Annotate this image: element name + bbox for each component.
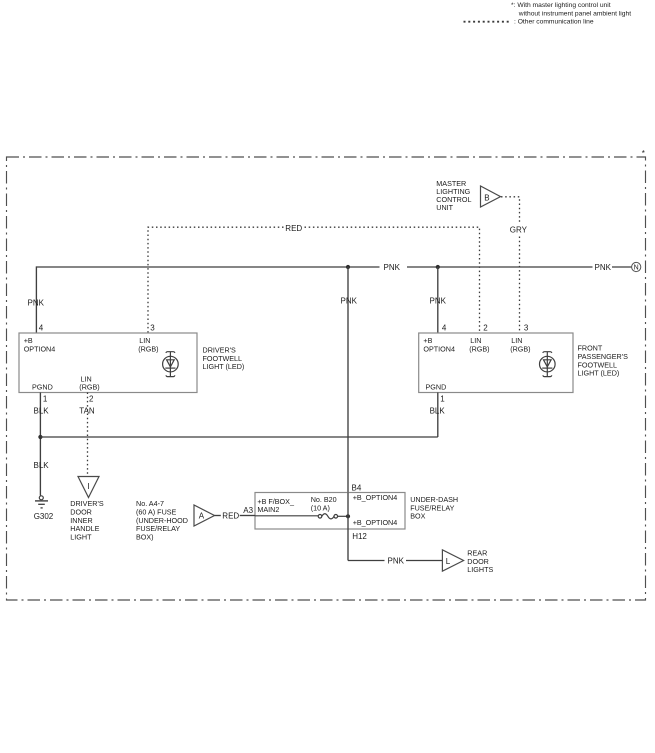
svg-text:BLK: BLK [430,406,446,415]
fuse element [255,514,348,519]
driver's footwell light box [19,333,197,393]
svg-text:PGND: PGND [32,382,53,391]
wire PNK to under-dash box [347,267,349,493]
wire PNK to passenger pin 4 [437,267,439,333]
svg-text:LIGHTS: LIGHTS [467,565,493,574]
svg-text:(RGB): (RGB) [469,344,489,353]
svg-text:A: A [199,512,205,521]
svg-text:PNK: PNK [595,263,612,272]
svg-text:N: N [634,265,639,272]
svg-text:(RGB): (RGB) [79,383,99,392]
dash-dot enclosure frame [7,157,646,600]
svg-text:BOX: BOX [410,512,425,521]
svg-text:3: 3 [524,324,529,333]
wire RED dotted right segment [305,227,480,333]
svg-text:RED: RED [285,224,302,233]
svg-text:LIGHT: LIGHT [70,532,92,541]
svg-text:*: * [642,149,645,158]
svg-text:+B_OPTION4: +B_OPTION4 [353,493,398,502]
svg-text:(RGB): (RGB) [510,344,530,353]
wire PNK to triangle L [406,560,442,562]
svg-text:4: 4 [442,324,447,333]
junction node fuse output [346,514,350,518]
svg-text:PNK: PNK [388,556,405,565]
svg-text:A3: A3 [243,506,253,515]
wire through box to H12 [347,493,349,561]
wire PNK bus segment 2 [407,266,593,268]
svg-text:2: 2 [89,394,94,403]
svg-text:MAIN2: MAIN2 [257,505,279,514]
svg-text:B4: B4 [352,483,362,492]
wire PNK bus segment 1 [36,266,379,268]
svg-text:3: 3 [150,324,155,333]
svg-text:1: 1 [440,394,445,403]
svg-text:GRY: GRY [510,226,528,235]
LED symbol driver [163,352,179,377]
svg-text:4: 4 [39,324,44,333]
svg-text:PGND: PGND [426,382,447,391]
wire RED to A3 [215,515,221,517]
svg-text:1: 1 [43,394,48,403]
connector triangle I [78,477,99,498]
svg-text:LIGHT (LED): LIGHT (LED) [578,369,620,378]
under-dash fuse/relay box [255,493,405,530]
wire GRY dotted from B [501,197,520,223]
svg-text:G302: G302 [34,512,54,521]
connector triangle B [481,186,501,207]
svg-text:OPTION4: OPTION4 [423,344,455,353]
wire PNK to rear door lights [348,560,385,562]
svg-text:TAN: TAN [79,406,95,415]
ground G302 [35,496,48,508]
svg-text:PNK: PNK [430,297,447,306]
svg-text:(10 A): (10 A) [311,504,330,513]
svg-text:2: 2 [483,324,488,333]
svg-text:BLK: BLK [34,406,50,415]
svg-text:*: With master lighting contro: *: With master lighting control unit [511,2,611,9]
front passenger's footwell light box [419,333,573,393]
legend dotted line sample [464,21,511,23]
junction node at mid PNK drop [346,265,350,269]
junction node at passenger PNK drop [436,265,440,269]
svg-text:H12: H12 [352,532,367,541]
svg-text:(RGB): (RGB) [138,344,158,353]
wire BLK ground bus [40,436,437,438]
wire RED dotted left segment [148,227,284,333]
junction node ground bus [38,435,42,439]
svg-text:+B_OPTION4: +B_OPTION4 [353,518,398,527]
svg-text:without instrument panel ambie: without instrument panel ambient light [518,10,631,17]
wire RED to box [240,515,255,517]
wire BLK passenger pin 1 [437,393,439,438]
connector triangle A [194,505,215,526]
svg-text:BLK: BLK [34,461,50,470]
svg-text:OPTION4: OPTION4 [24,344,56,353]
svg-text:PNK: PNK [384,263,401,272]
svg-text:LIGHT (LED): LIGHT (LED) [203,362,245,371]
node N circle [632,262,641,271]
LED symbol passenger [540,352,556,377]
svg-text:I: I [87,482,89,491]
wire PNK to driver pin 4 [35,266,37,333]
wire PNK bus segment 3 [612,266,632,268]
wire BLK driver pin 1 [39,393,41,496]
svg-text:PNK: PNK [341,297,358,306]
svg-text:: Other communication line: : Other communication line [514,19,594,26]
svg-text:BOX): BOX) [136,532,154,541]
svg-text:PNK: PNK [28,299,45,308]
svg-text:UNIT: UNIT [436,203,453,212]
svg-text:B: B [484,193,489,202]
svg-text:RED: RED [222,512,239,521]
wire GRY dotted to pin 3 [519,237,521,334]
svg-text:L: L [446,557,451,566]
connector triangle L [442,550,463,571]
wire TAN dotted driver pin 2 [87,393,89,477]
